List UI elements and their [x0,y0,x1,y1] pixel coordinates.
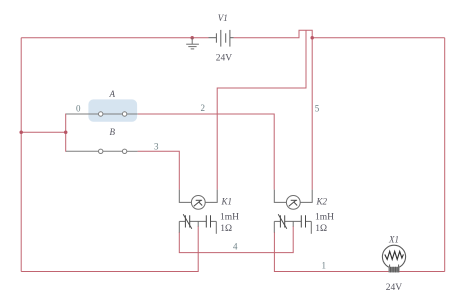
junction dot left edge [19,130,23,134]
relay K1 contacts [179,214,216,234]
wire left edge vertical [20,38,22,272]
svg-text:5: 5 [315,104,320,114]
junction dot node 0 [64,130,68,134]
svg-text:24V: 24V [386,283,403,293]
wire node branch at left [21,131,65,133]
relay K2 coil [274,190,312,210]
wire node 0 up to switch A [65,114,68,132]
svg-text:V1: V1 [218,13,228,23]
wire right edge vertical [444,38,446,272]
relay K2 contacts [274,214,311,234]
svg-text:A: A [109,89,116,99]
wire bottom-right bus from K2 contact to lamp and right edge [274,232,444,272]
wire net to K1 coil right from hop [217,30,306,189]
svg-text:4: 4 [233,242,238,252]
svg-text:1Ω: 1Ω [315,224,327,234]
svg-text:1: 1 [322,261,327,271]
wire node 2 from switch A to K2 coil left [138,114,274,190]
wire node 3 from switch B to K1 coil left [138,151,180,189]
wire bus 4 K1 contact to K2 common [179,226,293,253]
lamp X1 [382,245,405,272]
svg-text:3: 3 [154,142,159,152]
svg-text:1Ω: 1Ω [220,224,232,234]
junction dot at hop right [310,36,314,40]
switch A [66,112,138,116]
wire battery to jog with hop over, junction at right [234,30,445,37]
wire net 5 from junction to K2 coil right [311,38,313,190]
svg-text:24V: 24V [216,54,233,64]
svg-text:0: 0 [76,104,81,114]
svg-text:X1: X1 [388,235,399,245]
ground symbol [186,38,199,49]
switch B [66,149,138,153]
svg-text:B: B [110,127,116,137]
wire node 0 down to switch B [65,132,68,151]
relay K1 coil [179,190,217,210]
svg-text:1mH: 1mH [315,213,334,223]
battery V1 [209,30,234,47]
junction dot at ground tap [190,36,194,40]
svg-text:K1: K1 [221,197,233,207]
svg-text:1mH: 1mH [220,213,239,223]
highlight box on switch A [88,99,137,121]
wire bottom-left bus to K1 common [21,226,198,272]
svg-text:K2: K2 [316,197,328,207]
wire top-left from left edge to battery [21,37,208,39]
svg-text:2: 2 [201,103,206,113]
